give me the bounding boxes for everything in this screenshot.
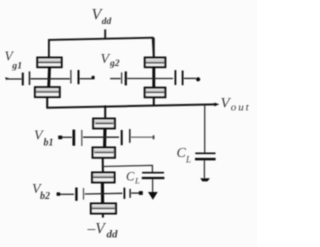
gate capacitor plate (right stack inner) — [174, 70, 176, 85]
gate wire across M7/M8 — [85, 192, 123, 195]
gate stub wire — [131, 192, 139, 194]
gate capacitor plate (left stack right outer) — [78, 70, 80, 84]
CL bottom plate — [195, 158, 216, 161]
wire M1-M2 channel — [47, 67, 51, 87]
CL ground stem — [203, 160, 205, 178]
svg-text:L: L — [134, 176, 140, 186]
transistor M7 — [92, 173, 114, 183]
svg-text:C: C — [126, 170, 135, 184]
Vg1 lead tick — [5, 77, 9, 80]
transistor M2 (left lower) — [35, 87, 60, 97]
CL (internal node) tap wire — [103, 165, 152, 172]
Vb2 gate wire — [60, 193, 74, 195]
wire rail to M3 — [153, 38, 155, 58]
CL2 ground stem — [152, 179, 154, 192]
terminal tick — [153, 135, 155, 139]
output rail — [46, 104, 216, 107]
wire M8 to -Vdd — [102, 214, 104, 218]
Vb2 terminal square — [57, 192, 61, 195]
Vb1 gate wire — [62, 136, 72, 138]
wire M7-M8 channel — [101, 182, 104, 203]
gate capacitor plate (row1 right outer) — [129, 129, 131, 143]
gate stub wire — [184, 77, 196, 79]
gate capacitor plate (Vb1 inner) — [81, 130, 83, 146]
gate stub wire — [80, 78, 92, 80]
svg-text:C: C — [177, 146, 187, 161]
svg-text:–V: –V — [87, 221, 107, 238]
transistor M3 (right upper) — [145, 58, 166, 68]
Vdd supply stub — [104, 29, 106, 39]
Vout arrow — [214, 103, 219, 107]
gate capacitor plate (row2 right inner) — [123, 188, 125, 199]
gate capacitor plate (Vb1 outer) — [72, 130, 75, 146]
gate capacitor plate (row2 right outer) — [129, 189, 131, 198]
ground arrow — [148, 192, 158, 200]
svg-text:V: V — [34, 129, 44, 144]
gate capacitor plate (right stack outer) — [182, 71, 184, 86]
transistor M4 (right lower) — [145, 88, 166, 98]
wire M3-M4 channel — [152, 67, 155, 88]
gate stub wire — [131, 136, 153, 138]
svg-text:g1: g1 — [11, 60, 22, 71]
gate capacitor plate (Vb2 inner) — [83, 188, 85, 200]
transistor M5 — [93, 119, 115, 129]
svg-text:b1: b1 — [44, 138, 54, 149]
wire M6-M7 — [102, 158, 104, 173]
svg-text:dd: dd — [102, 17, 112, 27]
wire M5-M6 channel — [103, 128, 107, 147]
Vg2 gate wire — [110, 78, 121, 80]
Vdd top rail — [49, 38, 154, 58]
gate wire across M5/M6 — [83, 136, 119, 138]
terminal square — [92, 76, 95, 79]
gate capacitor plate (Vb2 outer) — [75, 188, 77, 201]
gate capacitor plate (Vg1 outer) — [22, 73, 24, 86]
CL2 top plate — [142, 172, 164, 174]
svg-text:L: L — [185, 155, 191, 165]
CL2 bottom plate — [142, 177, 165, 179]
terminal dot — [196, 77, 200, 81]
gate wire across M3/M4 — [127, 78, 173, 80]
wire M4 to output rail — [153, 97, 155, 105]
wire M2 to output rail — [46, 97, 48, 108]
Vb1 terminal square — [58, 136, 62, 140]
gate capacitor plate (left stack right inner) — [70, 70, 72, 84]
transistor M8 — [91, 204, 116, 214]
CL top plate — [195, 152, 215, 154]
transistor M6 — [93, 148, 115, 158]
transistor M1 (left upper) — [37, 58, 61, 68]
Vg1 gate wire — [8, 78, 22, 80]
gate wire across M1/M2 — [31, 78, 70, 80]
svg-text:b2: b2 — [40, 191, 50, 202]
gate capacitor plate (Vg2 outer) — [121, 72, 123, 83]
svg-text:dd: dd — [107, 228, 119, 240]
wire rail to M5 — [104, 105, 106, 118]
load capacitor CL (output) stub — [204, 105, 206, 153]
svg-text:V: V — [101, 52, 111, 67]
gate capacitor plate (Vg1 inner) — [29, 71, 31, 85]
svg-text:g2: g2 — [109, 58, 120, 69]
gate capacitor plate (Vg2 inner) — [125, 71, 127, 85]
ground arrow — [200, 178, 210, 181]
terminal square — [139, 191, 143, 195]
gate capacitor plate (row1 right inner) — [121, 130, 123, 145]
svg-text:out: out — [231, 102, 251, 114]
